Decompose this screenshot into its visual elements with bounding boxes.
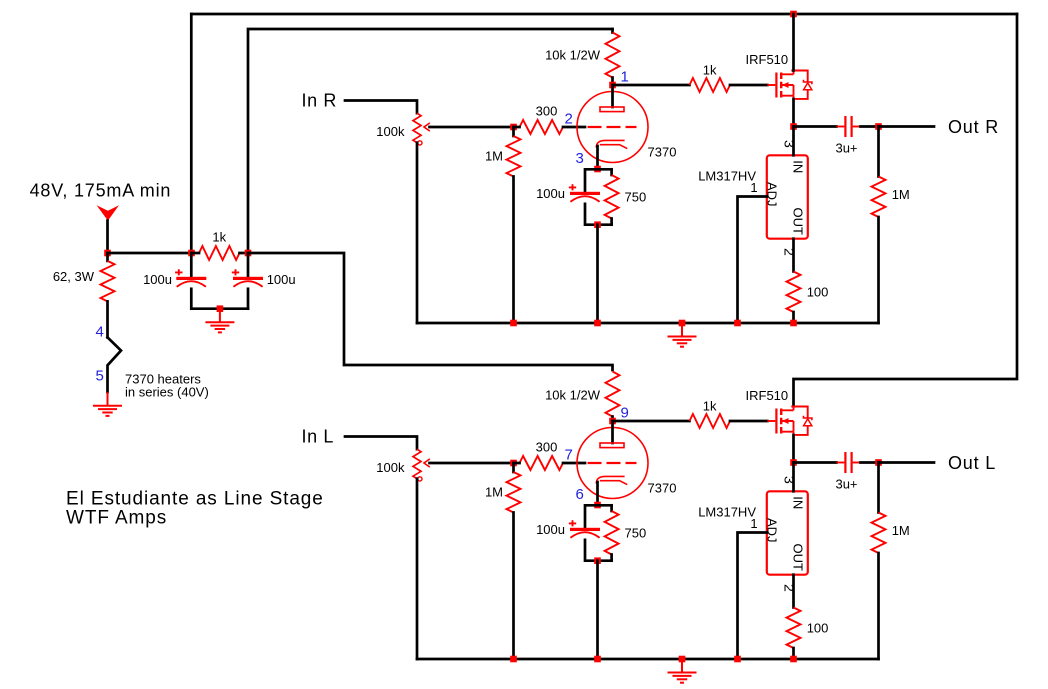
- capacitor 3u L: [794, 452, 879, 473]
- label 1M grid R: [485, 149, 503, 164]
- label IRF510 R: [746, 52, 789, 67]
- resistor 750 R: [605, 169, 619, 224]
- triode L cathode: [596, 476, 627, 484]
- svg-text:1M: 1M: [892, 187, 910, 202]
- label LM317HV L: [698, 505, 756, 520]
- wire 1k leads: [192, 252, 249, 255]
- node bus junction x597.5 R: [594, 320, 601, 327]
- pin 3 LM317 R: [782, 140, 798, 148]
- svg-text:300: 300: [536, 439, 558, 454]
- wire B+ feed to lower channel: [248, 253, 613, 370]
- node 1k left junction: [188, 250, 195, 257]
- wire RC bottom to bus L: [596, 561, 599, 659]
- label OUT pin R: [791, 208, 806, 236]
- node cathode junction R: [594, 166, 601, 173]
- svg-text:1M: 1M: [892, 523, 910, 538]
- svg-text:OUT: OUT: [791, 544, 806, 572]
- pin 1 label: [621, 69, 629, 86]
- resistor 1k gate R: [613, 78, 768, 92]
- svg-text:1M: 1M: [485, 149, 503, 164]
- pin 1 LM317 L: [750, 516, 757, 531]
- label 10k L: [545, 387, 601, 402]
- label 100k L: [376, 460, 405, 475]
- svg-text:750: 750: [625, 526, 647, 541]
- resistor 1M grid R: [507, 127, 521, 323]
- wire to Out L: [879, 461, 935, 464]
- resistor 10k plate L: [606, 372, 620, 422]
- label IN pin L: [791, 496, 806, 509]
- triode 7370 L envelope: [577, 428, 648, 499]
- label 1M output L: [892, 523, 910, 538]
- node PSU ground junction: [217, 305, 224, 312]
- label 750 L: [625, 526, 647, 541]
- pin 7 label: [565, 447, 573, 464]
- label 7370 heaters note: [125, 372, 209, 400]
- svg-text:2: 2: [782, 248, 798, 256]
- node plate junction R: [609, 82, 616, 89]
- triode R cathode: [596, 140, 627, 148]
- wire LM317 IN lead L: [792, 463, 795, 492]
- svg-text:2: 2: [782, 584, 798, 592]
- svg-text:1k: 1k: [212, 229, 226, 244]
- wire to Out R: [879, 125, 935, 128]
- capacitor 100u PSU left: [175, 253, 206, 309]
- node out junction R: [875, 123, 882, 130]
- resistor 1k PSU: [199, 246, 240, 260]
- svg-text:3: 3: [576, 150, 584, 167]
- transistor IRF510 R: [767, 71, 812, 99]
- resistor 300 R: [514, 120, 586, 134]
- svg-text:10k 1/2W: 10k 1/2W: [545, 387, 601, 402]
- wire pot bottom to bus: [416, 479, 419, 659]
- label 100u cathode L: [536, 522, 565, 537]
- resistor 750 L: [605, 505, 619, 560]
- label IN pin R: [791, 160, 806, 173]
- svg-text:48V, 175mA min: 48V, 175mA min: [30, 180, 172, 200]
- transistor IRF510 L: [767, 407, 812, 435]
- svg-text:10k 1/2W: 10k 1/2W: [545, 48, 601, 63]
- svg-text:IRF510: IRF510: [746, 52, 789, 67]
- svg-text:7: 7: [565, 447, 573, 464]
- svg-text:OUT: OUT: [791, 208, 806, 236]
- label IRF510 L: [746, 388, 789, 403]
- label 3u+ L: [835, 477, 857, 492]
- wire pot wiper to grid node: [430, 126, 514, 129]
- resistor 1M output R: [872, 127, 886, 324]
- label OUT pin L: [791, 544, 806, 572]
- label 1M grid L: [485, 485, 503, 500]
- wire inner top bus: [248, 29, 613, 253]
- label 100u cathode R: [536, 186, 565, 201]
- pin 2 LM317 L: [782, 584, 798, 592]
- node RC bottom junction L: [594, 557, 601, 564]
- node bus junction x737.5 R: [734, 320, 741, 327]
- svg-text:ADJ: ADJ: [765, 182, 780, 207]
- svg-text:100u: 100u: [267, 272, 296, 287]
- svg-text:1: 1: [750, 180, 757, 195]
- svg-text:100u: 100u: [536, 186, 565, 201]
- resistor 1M grid L: [507, 463, 521, 659]
- svg-text:100: 100: [807, 285, 829, 300]
- svg-text:100u: 100u: [536, 522, 565, 537]
- pin 6 label: [576, 486, 584, 503]
- label title line2: [66, 507, 167, 528]
- svg-text:LM317HV: LM317HV: [698, 505, 756, 520]
- svg-text:IN: IN: [791, 496, 806, 509]
- node grid junction L: [510, 460, 517, 467]
- resistor 10k plate R: [606, 29, 620, 85]
- svg-text:100: 100: [807, 621, 829, 636]
- node bus junction x682 R: [679, 320, 686, 327]
- regulator LM317 R body: [767, 155, 808, 238]
- wire left outer vertical: [190, 14, 193, 253]
- ground bus L: [668, 659, 697, 683]
- node RC bottom junction R: [594, 221, 601, 228]
- wire LM317 ADJ lead R: [738, 197, 767, 324]
- pin 1 LM317 R: [750, 180, 757, 195]
- potentiometer 100k L: [413, 449, 430, 481]
- wire pot bottom to bus: [416, 143, 419, 323]
- ground PSU: [205, 309, 234, 333]
- label 10k R: [545, 48, 601, 63]
- triode R plate: [600, 85, 624, 112]
- wire LM317 ADJ lead L: [738, 533, 767, 660]
- svg-text:IN: IN: [791, 160, 806, 173]
- wire bottom bus L: [417, 658, 879, 661]
- label LM317HV R: [698, 169, 756, 184]
- wire node to 1k left junction: [108, 252, 192, 255]
- power input 48V arrow: [97, 205, 119, 220]
- label 3u+ R: [835, 141, 857, 156]
- resistor 1k gate L: [613, 414, 768, 428]
- wire pot wiper to grid node: [430, 462, 514, 465]
- label 7370 L: [648, 481, 677, 496]
- wire top outer bus: [191, 13, 1017, 16]
- node bus junction x513.5 R: [510, 320, 517, 327]
- label 300 L: [536, 439, 558, 454]
- ground heater return: [93, 392, 122, 416]
- wire bottom bus R: [417, 322, 879, 325]
- label 62, 3W: [53, 269, 95, 284]
- wire drain R: [792, 14, 795, 71]
- svg-text:62, 3W: 62, 3W: [53, 269, 95, 284]
- svg-text:In L: In L: [302, 427, 334, 447]
- pin 2 LM317 R: [782, 248, 798, 256]
- node bus junction x513.5 L: [510, 656, 517, 663]
- node bus junction x682 L: [679, 656, 686, 663]
- svg-text:ADJ: ADJ: [765, 518, 780, 543]
- triode R grid: [588, 126, 637, 128]
- resistor 1M output L: [872, 463, 886, 660]
- svg-text:Out R: Out R: [948, 117, 999, 137]
- svg-text:100k: 100k: [376, 460, 405, 475]
- pin 3 label: [576, 150, 584, 167]
- wire In L to pot: [345, 437, 417, 450]
- regulator LM317 L body: [767, 491, 808, 574]
- svg-text:100u: 100u: [143, 272, 172, 287]
- triode 7370 R envelope: [577, 92, 648, 163]
- capacitor 100u cathode R: [569, 169, 612, 224]
- pin 2 label: [565, 111, 573, 128]
- svg-text:9: 9: [621, 405, 629, 422]
- wire cathode lead R: [596, 146, 599, 169]
- triode L grid: [588, 462, 637, 464]
- svg-text:3u+: 3u+: [835, 141, 857, 156]
- svg-text:3: 3: [782, 476, 798, 484]
- resistor 100 R: [787, 239, 801, 323]
- svg-text:in series (40V): in series (40V): [125, 385, 209, 400]
- label 48V 175mA min: [30, 180, 172, 200]
- node 1k right junction: [245, 250, 252, 257]
- node plate junction L: [609, 418, 616, 425]
- wire right edge feed to lower drain: [794, 14, 1018, 406]
- capacitor 3u R: [794, 116, 879, 137]
- label ADJ pin R: [765, 182, 780, 207]
- label 100u left: [143, 272, 172, 287]
- svg-text:Out L: Out L: [948, 453, 996, 473]
- svg-text:In R: In R: [302, 91, 337, 111]
- svg-text:LM317HV: LM317HV: [698, 169, 756, 184]
- wire RC bottom to bus R: [596, 225, 599, 323]
- resistor 100 L: [787, 575, 801, 659]
- label In R: [302, 91, 337, 111]
- svg-text:100k: 100k: [376, 124, 405, 139]
- label Out L: [948, 453, 996, 473]
- svg-text:1M: 1M: [485, 485, 503, 500]
- label 100 L: [807, 621, 829, 636]
- svg-text:1: 1: [750, 516, 757, 531]
- label 100k R: [376, 124, 405, 139]
- potentiometer 100k R: [413, 113, 430, 145]
- node drain junction R: [790, 11, 797, 18]
- node bus junction x737.5 L: [734, 656, 741, 663]
- svg-text:1: 1: [621, 69, 629, 86]
- wire 62 resistor to heater: [106, 301, 109, 337]
- node output junction R: [790, 123, 797, 130]
- svg-text:1k: 1k: [703, 62, 717, 77]
- capacitor 100u PSU right: [232, 253, 263, 309]
- resistor 62 3W: [101, 253, 115, 301]
- label title line1: [66, 489, 324, 510]
- svg-text:750: 750: [625, 190, 647, 205]
- node grid junction R: [510, 124, 517, 131]
- svg-text:300: 300: [536, 103, 558, 118]
- pin 4 label: [96, 324, 104, 341]
- label 300 R: [536, 103, 558, 118]
- wire source to output node L: [792, 435, 795, 463]
- label Out R: [948, 117, 999, 137]
- svg-text:IRF510: IRF510: [746, 388, 789, 403]
- capacitor 100u cathode L: [569, 505, 612, 560]
- pin 9 label: [621, 405, 629, 422]
- wire LM317 IN lead R: [792, 127, 795, 156]
- svg-text:3u+: 3u+: [835, 477, 857, 492]
- wire In R to pot: [345, 101, 417, 114]
- ground bus R: [668, 323, 697, 347]
- svg-text:4: 4: [96, 324, 104, 341]
- label 1k gate R: [703, 62, 717, 77]
- label 100 R: [807, 285, 829, 300]
- label 1M output R: [892, 187, 910, 202]
- label 100u right: [267, 272, 296, 287]
- node cathode junction L: [594, 502, 601, 509]
- node bus junction x597.5 L: [594, 656, 601, 663]
- label 7370 R: [648, 145, 677, 160]
- svg-text:6: 6: [576, 486, 584, 503]
- wire PSU cap bottom bus: [191, 307, 248, 310]
- node out junction L: [875, 459, 882, 466]
- pin 3 LM317 L: [782, 476, 798, 484]
- label ADJ pin L: [765, 518, 780, 543]
- pin 5 label: [96, 368, 104, 385]
- label 750 R: [625, 190, 647, 205]
- svg-text:WTF Amps: WTF Amps: [66, 507, 167, 528]
- resistor 300 L: [514, 456, 586, 470]
- node PSU input junction: [104, 250, 111, 257]
- svg-text:7370: 7370: [648, 145, 677, 160]
- svg-text:5: 5: [96, 368, 104, 385]
- node bus junction x793.5 R: [790, 320, 797, 327]
- svg-text:1k: 1k: [703, 398, 717, 413]
- node bus junction x793.5 L: [790, 656, 797, 663]
- wire source to output node R: [792, 99, 795, 127]
- svg-text:7370: 7370: [648, 481, 677, 496]
- svg-text:3: 3: [782, 140, 798, 148]
- svg-text:2: 2: [565, 111, 573, 128]
- label 1k PSU: [212, 229, 226, 244]
- label In L: [302, 427, 334, 447]
- label 1k gate L: [703, 398, 717, 413]
- triode L plate: [600, 421, 624, 448]
- wire from 48V arrow to node: [106, 221, 109, 253]
- node output junction L: [790, 459, 797, 466]
- wire cathode lead L: [596, 482, 599, 505]
- wire 7370 heater jog: [108, 337, 122, 392]
